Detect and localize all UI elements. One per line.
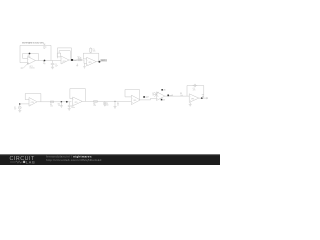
svg-text:10k: 10k — [180, 95, 183, 97]
svg-text:OP3: OP3 — [88, 62, 91, 64]
svg-text:fin: fin — [202, 96, 204, 98]
ground — [18, 110, 21, 112]
svg-text:OP5: OP5 — [75, 102, 78, 104]
node out — [201, 97, 203, 99]
op-amp U1 — [28, 57, 36, 65]
resistor R3 — [50, 101, 53, 103]
net flag U7 bottom — [161, 99, 165, 102]
wire U1 out — [36, 60, 62, 62]
op-amp U6 — [131, 95, 140, 104]
svg-text:http://circuitlab.com/c/8Mq5Du: http://circuitlab.com/c/8Mq5Du4skd — [46, 158, 102, 162]
svg-text:50k: 50k — [93, 50, 96, 52]
svg-text:47n: 47n — [193, 90, 196, 92]
wire U5 out — [82, 100, 131, 102]
node N1 — [44, 60, 46, 62]
op-amp U5 — [73, 97, 83, 106]
svg-text:LAB: LAB — [26, 160, 36, 164]
logo wire squiggle — [10, 161, 23, 163]
wire feedback U8 — [187, 86, 204, 99]
node N2 — [66, 101, 68, 103]
wire feedback U2 inner — [59, 51, 70, 59]
svg-text:1k: 1k — [58, 105, 60, 107]
svg-text:+: + — [157, 98, 158, 100]
capacitor C3 — [103, 101, 106, 104]
svg-text:OP4: OP4 — [31, 102, 34, 104]
wire U7 out — [165, 95, 189, 97]
resistor R1 box — [57, 53, 61, 57]
svg-text:10n: 10n — [106, 104, 109, 106]
net flag U7 top — [161, 89, 165, 92]
wire U2 out — [69, 59, 84, 61]
wire U8 out — [199, 97, 208, 99]
svg-text:+: + — [30, 104, 31, 106]
op-amp U4 — [29, 98, 37, 107]
op-amp U8 — [189, 94, 199, 103]
crossover X — [154, 92, 158, 97]
op-amp U2 — [61, 56, 69, 64]
svg-text:+: + — [73, 104, 74, 106]
svg-text:10k: 10k — [50, 106, 53, 108]
logo box icon — [23, 161, 25, 163]
node + ground tap — [61, 101, 63, 103]
op-amp U7 — [157, 92, 165, 101]
capacitor C4 — [193, 84, 198, 87]
resistor R2 — [78, 59, 81, 61]
svg-text:+: + — [190, 100, 191, 102]
ground — [189, 102, 192, 106]
power VCC tap — [43, 44, 45, 45]
svg-text:OP2: OP2 — [63, 61, 66, 63]
wire feedback U6 — [125, 90, 140, 101]
node U3 out — [98, 61, 100, 63]
svg-text:OP6: OP6 — [133, 100, 136, 102]
footer bar — [0, 154, 220, 165]
svg-text:100n: 100n — [71, 107, 75, 109]
potentiometer P1 — [90, 52, 92, 53]
wire outer loop U1 — [20, 45, 51, 62]
svg-text:2k: 2k — [117, 105, 119, 107]
title text — [22, 41, 44, 44]
wire U7 in — [154, 93, 157, 95]
net flag OUT2 — [143, 96, 148, 99]
svg-text:vth: vth — [163, 89, 165, 92]
ground — [76, 64, 78, 66]
ground — [68, 109, 71, 111]
svg-text:+: + — [28, 63, 29, 65]
wire U3 out — [96, 61, 99, 63]
port arrow — [206, 97, 208, 99]
svg-text:OP8: OP8 — [191, 98, 194, 100]
ground — [51, 67, 54, 69]
node + ground — [114, 101, 115, 102]
svg-text:1uF: 1uF — [55, 65, 58, 67]
wire feedback U4 — [25, 94, 41, 102]
wire U4 out — [37, 101, 71, 103]
svg-text:fb: fb — [80, 59, 81, 61]
wire feedback U5 — [70, 89, 86, 102]
svg-text:sig: sig — [43, 63, 45, 65]
ground — [83, 63, 86, 68]
net label OUT — [100, 59, 107, 62]
svg-text:out1: out1 — [73, 59, 77, 62]
svg-text:+: + — [132, 102, 133, 104]
net flag OUT1 — [71, 59, 77, 62]
svg-text:+: + — [87, 64, 88, 66]
svg-text:NIGHTMARE SOUND GEN: NIGHTMARE SOUND GEN — [22, 41, 44, 44]
node FB1 — [29, 53, 31, 55]
svg-text:out3: out3 — [169, 94, 173, 97]
wire feedback U2 — [57, 48, 71, 60]
op-amp U3 — [87, 57, 97, 66]
wire feedback U3 — [83, 53, 99, 61]
resistor R5 — [94, 101, 98, 103]
svg-text:22k: 22k — [93, 105, 96, 107]
svg-text:1k: 1k — [152, 95, 154, 97]
net flag out3 — [167, 94, 172, 97]
capacitor C2 — [68, 102, 71, 109]
voltage source V1 — [18, 106, 21, 109]
svg-text:LM741: LM741 — [30, 67, 35, 69]
wire U3 inputs — [83, 59, 86, 64]
wire U6 out — [140, 98, 156, 100]
node src — [19, 103, 21, 105]
wire V1 to U4 — [20, 103, 29, 105]
svg-text:out2: out2 — [145, 96, 149, 99]
wire feedback U1 — [23, 54, 39, 61]
trim arrow U1 — [23, 63, 28, 68]
capacitor C1 — [51, 61, 54, 67]
